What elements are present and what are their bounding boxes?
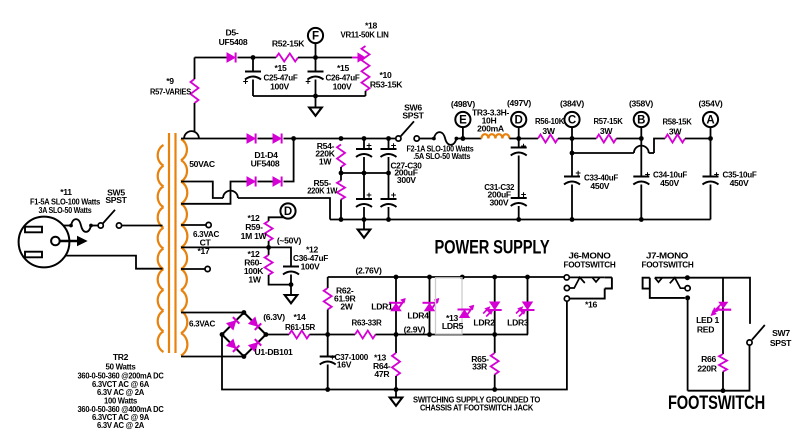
transformer TR2 core [169, 133, 176, 353]
AC plug arrow [60, 237, 87, 246]
svg-text:3A SLO-50 Watts: 3A SLO-50 Watts [39, 205, 92, 215]
svg-text:47R: 47R [374, 369, 390, 379]
junction C27 top [362, 136, 367, 141]
junction node E [461, 136, 466, 141]
svg-text:+: + [521, 141, 527, 152]
wire F stub [315, 43, 317, 57]
wire 6.3VCT bottom terminal [181, 268, 205, 270]
resistor R66 [719, 354, 727, 372]
wire rail to R64 [395, 335, 397, 354]
wire R60 bottom [269, 275, 291, 285]
wire R65 to bus [494, 375, 496, 390]
svg-text:16V: 16V [337, 360, 352, 370]
wire C36 bottom [290, 275, 292, 285]
wire C28 bottom [388, 157, 390, 173]
svg-text:200mA: 200mA [477, 124, 504, 134]
node C [564, 112, 579, 127]
node D bias [280, 203, 295, 218]
svg-text:1M 1W: 1M 1W [241, 231, 268, 241]
LED LED1 [711, 302, 731, 316]
wire TR3 to R56 [509, 138, 538, 140]
J6 sleeve [570, 277, 612, 298]
wire 6.3V rail [376, 334, 529, 336]
wire 6.3VAC top tap [181, 312, 244, 314]
wire C29 lead [363, 173, 365, 199]
junction node C [570, 136, 575, 141]
svg-text:450V: 450V [590, 181, 609, 191]
junction LDR5 top [460, 275, 465, 280]
resistor R52 [276, 54, 298, 62]
ground HV bus [358, 230, 371, 238]
svg-text:3W: 3W [669, 127, 682, 137]
wire B stub [640, 127, 642, 138]
junction bypass [570, 151, 575, 156]
svg-text:R58-15K: R58-15K [663, 117, 693, 127]
inductor TR3 [481, 134, 509, 138]
wire to C25 [252, 58, 254, 72]
SW5 contact 2 [116, 223, 121, 228]
bridge U1 diamond [222, 313, 266, 357]
svg-text:33R: 33R [472, 362, 488, 372]
wire LDR2 column [494, 277, 496, 335]
wire bus to R62 [327, 277, 329, 288]
capacitor C34 [633, 177, 649, 185]
capacitor C35 [703, 177, 719, 185]
svg-text:R57-15K: R57-15K [594, 116, 624, 126]
wire LDR4 column [429, 277, 431, 335]
svg-text:FOOTSWITCH: FOOTSWITCH [668, 393, 765, 414]
wire R59 to CT [268, 241, 270, 255]
wire SW7 to bottom rail [688, 345, 750, 391]
svg-text:D: D [515, 114, 523, 126]
wire J7 tip to SW7 [687, 278, 750, 324]
svg-text:+: + [366, 141, 372, 152]
SW7 blade [752, 325, 765, 340]
wire C28 lead [388, 139, 390, 150]
wire mid to R55 [340, 173, 342, 181]
resistor R62 [324, 288, 332, 310]
capacitor C30 [381, 199, 397, 207]
svg-text:+: + [391, 190, 397, 201]
svg-text:LDR2: LDR2 [473, 317, 495, 327]
wire D stub to R59 [269, 217, 284, 221]
svg-text:LED 1: LED 1 [696, 315, 719, 325]
junction R66 bottom [721, 388, 726, 393]
wire HV center tap [181, 182, 223, 199]
wire C35 to bus [710, 185, 712, 220]
svg-text:+: + [645, 170, 651, 181]
node A [703, 112, 718, 127]
resistor R55 [337, 181, 345, 200]
terminal 6.3VCT bottom [205, 266, 210, 271]
SW6 blade [401, 121, 414, 136]
junction F node [313, 55, 318, 60]
svg-text:+: + [243, 77, 249, 88]
svg-text:UF5408: UF5408 [251, 159, 280, 169]
SW7 contact [747, 340, 752, 345]
wire plug to F1 [63, 225, 71, 227]
svg-text:C: C [568, 114, 576, 126]
svg-text:F: F [312, 30, 319, 42]
svg-text:+: + [305, 77, 311, 88]
wire R57 to B [616, 138, 641, 140]
resistor R54 [337, 145, 345, 168]
wire D2 to rail [284, 138, 342, 140]
wire R61 to R63 [310, 334, 356, 336]
diode D4 [273, 177, 282, 187]
wire HV ground bus [330, 219, 711, 221]
wire C25 bottom [252, 80, 254, 97]
node D [511, 112, 526, 127]
junction C33 bus [570, 217, 575, 222]
AC plug neutral prong [25, 252, 42, 258]
junction LDR3 top [525, 275, 530, 280]
wire A to C35 [710, 139, 712, 177]
resistor R61 [289, 331, 310, 339]
wire SW5 to TR2 primary top [122, 225, 163, 227]
svg-text:SPST: SPST [105, 195, 127, 205]
svg-text:R57-VARIES: R57-VARIES [150, 87, 191, 97]
wire 2.76V bus [328, 276, 565, 278]
wire C27 bottom [363, 157, 365, 173]
wire R57 top [194, 58, 196, 80]
junction R55 bus [339, 217, 344, 222]
LDR LDR4 [423, 298, 440, 311]
junction R59 CT [266, 245, 271, 250]
svg-text:220K 1W: 220K 1W [307, 185, 338, 195]
LDR LDR1 [389, 298, 406, 311]
J6 sleeve terminal [564, 296, 569, 301]
svg-text:R66: R66 [701, 354, 716, 364]
junction C32 bus [516, 217, 521, 222]
junction LDR1 top [394, 275, 399, 280]
diode D2 [273, 134, 282, 144]
junction ground [313, 94, 318, 99]
svg-text:*16: *16 [585, 300, 598, 310]
svg-text:450V: 450V [660, 178, 679, 188]
wire C32 to bus [518, 206, 520, 220]
junction LDR4 top [427, 275, 432, 280]
capacitor C33 [564, 177, 580, 185]
wire E stub [462, 127, 464, 138]
wire C29 bottom [363, 207, 365, 220]
junction R54 top [339, 136, 344, 141]
svg-text:A: A [706, 114, 714, 126]
wire LDR3 column [527, 277, 529, 335]
junction node D [516, 136, 521, 141]
wire C34 to bus [640, 185, 642, 220]
svg-text:U1-DB101: U1-DB101 [255, 347, 294, 357]
svg-text:B: B [637, 114, 645, 126]
wire J7 sleeve down [687, 298, 689, 391]
junction C30 bus [386, 217, 391, 222]
junction C28 top [386, 136, 391, 141]
svg-text:FOOTSWITCH: FOOTSWITCH [642, 260, 694, 270]
wire C30 bottom [388, 207, 390, 220]
wire LDR1 column [395, 277, 397, 335]
AC plug body [19, 217, 70, 268]
J7 tip spring [670, 278, 685, 289]
svg-text:R63-33R: R63-33R [352, 318, 383, 328]
wire SW6 to F2 [419, 138, 434, 140]
svg-text:(2.9V): (2.9V) [404, 324, 426, 334]
svg-text:POWER SUPPLY: POWER SUPPLY [435, 238, 550, 259]
svg-text:100V: 100V [301, 262, 320, 272]
bridge diode 3 [227, 339, 240, 352]
junction C25 top [251, 55, 256, 60]
capacitor C32 [511, 198, 527, 206]
resistor R56 [538, 135, 558, 143]
wire D5 to node [238, 57, 277, 59]
wire C to C33 [571, 139, 573, 177]
wire C37 to ground bus [327, 365, 329, 390]
resistor R63 [355, 331, 376, 339]
junction bridge left [220, 332, 225, 337]
J6 tip terminal [564, 275, 569, 280]
junction J7 sleeve [685, 295, 690, 300]
svg-text:SPST: SPST [770, 338, 792, 348]
svg-text:*17: *17 [197, 246, 210, 256]
SW6 contact 1 [396, 136, 401, 141]
svg-text:*10: *10 [379, 70, 392, 80]
svg-text:(~50V): (~50V) [277, 236, 302, 246]
junction R65 bus [492, 387, 497, 392]
wire LED1 column [722, 278, 724, 354]
wire bus ground stem [363, 220, 365, 230]
svg-text:R53-15K: R53-15K [370, 80, 403, 90]
wire C26 bottom [315, 80, 317, 97]
junction node A [708, 136, 713, 141]
J6 tip notch [592, 277, 600, 282]
optional LDR5 box [436, 278, 463, 334]
fuse F1 [71, 219, 91, 232]
diode D5 [227, 53, 236, 63]
wire rail to R65 [494, 335, 496, 354]
svg-text:R52-15K: R52-15K [272, 39, 305, 49]
svg-text:100V: 100V [270, 82, 289, 92]
wire 6.3VAC bottom tap [181, 356, 244, 358]
junction bridge top [242, 310, 247, 315]
hop bypass over B wire [634, 146, 649, 153]
SW6 contact 2 [414, 136, 419, 141]
transformer TR2 secondary winding [181, 139, 187, 356]
wire middle cap rail [341, 172, 389, 174]
SW5 contact 1 [98, 223, 103, 228]
wire R56 to C [558, 138, 596, 140]
node B [634, 112, 649, 127]
wire R57 bottom [194, 103, 196, 133]
wire D3 to D4 [258, 181, 274, 183]
bridge diode 2 [249, 317, 262, 330]
junction C29 bus [362, 217, 367, 222]
svg-text:(6.3V): (6.3V) [263, 312, 285, 322]
wire J6 tip line [569, 276, 604, 278]
svg-text:*11: *11 [60, 187, 72, 197]
wire R62 to rail [327, 310, 329, 335]
svg-text:+: + [575, 168, 581, 179]
diode D3 [247, 177, 256, 187]
LDR LDR2 [483, 302, 502, 317]
svg-text:(354V): (354V) [699, 99, 723, 109]
svg-text:*9: *9 [166, 76, 174, 86]
capacitor C31 [511, 148, 527, 156]
svg-text:LDR1: LDR1 [371, 301, 393, 311]
svg-text:*15: *15 [337, 63, 350, 73]
wire C stub [571, 127, 573, 138]
svg-text:R61-15R: R61-15R [285, 322, 316, 332]
svg-text:SW7: SW7 [772, 328, 790, 338]
junction bridge bottom [242, 354, 247, 359]
svg-text:+: + [391, 141, 397, 152]
wire bypass right [649, 152, 654, 154]
transformer TR2 primary winding [158, 145, 164, 352]
wire R52 to VR11 wiper [298, 57, 352, 59]
svg-text:450V: 450V [730, 178, 749, 188]
wire R57 hook to tap [184, 131, 199, 138]
wire plug neutral to TR2 primary bottom [65, 256, 162, 269]
svg-text:RED: RED [697, 325, 714, 335]
junction C37 R62 [325, 332, 330, 337]
wire chassis ground stem [395, 390, 397, 398]
wire bypass left [572, 152, 634, 154]
junction LDR2 top [492, 275, 497, 280]
capacitor C36 [283, 267, 299, 275]
wire B to C34 [640, 139, 642, 177]
junction LDR4 rail [427, 332, 432, 337]
svg-text:2W: 2W [340, 301, 353, 311]
wire C33 to bus [571, 185, 573, 220]
svg-text:+: + [366, 190, 372, 201]
resistor R65 [491, 353, 499, 375]
junction LDR2 rail [492, 332, 497, 337]
svg-text:6.3VAC: 6.3VAC [189, 319, 215, 329]
AC plug ground pin [51, 237, 60, 246]
svg-text:E: E [459, 114, 467, 126]
svg-text:100V: 100V [333, 82, 352, 92]
junction R54-R55 [339, 171, 344, 176]
capacitor C37 [320, 357, 336, 365]
resistor R58 [665, 135, 685, 143]
wire R66 to bottom [722, 372, 724, 391]
wire F1 to SW5 [91, 225, 98, 227]
wire D4 to rectifier output [284, 139, 294, 182]
wire top section ground bus [253, 95, 366, 97]
junction R64 bus [394, 387, 399, 392]
svg-text:+: + [714, 170, 720, 181]
svg-text:300V: 300V [489, 198, 508, 208]
resistor R64 [392, 353, 400, 376]
wire HV bottom tap to D3 [181, 182, 247, 204]
svg-text:CHASSIS AT FOOTSWITCH JACK: CHASSIS AT FOOTSWITCH JACK [420, 403, 534, 413]
wire to C26 [315, 58, 317, 72]
wire low-voltage ground bus [222, 301, 567, 389]
svg-text:+: + [521, 190, 527, 201]
wire F2 to TR3 [456, 138, 481, 140]
wire R64 to bus [395, 376, 397, 390]
capacitor C26 [308, 72, 324, 80]
junction C34 bus [639, 217, 644, 222]
svg-text:SPST: SPST [402, 111, 424, 121]
J7 NC terminal [685, 286, 690, 291]
junction mid C28 [386, 171, 391, 176]
J6 NC terminal [564, 285, 569, 290]
SW5 blade [103, 210, 115, 224]
wire ground stem [315, 96, 317, 107]
fuse F2 [434, 132, 457, 145]
junction mid C27 [362, 171, 367, 176]
ground top section [309, 108, 322, 116]
resistor R57 3W [596, 135, 616, 143]
wire C31 to C32 [518, 156, 520, 199]
capacitor C25 [245, 72, 261, 80]
J7 sleeve box [643, 278, 685, 298]
wire jog to R58 [654, 139, 665, 154]
wire D1 to D2 [258, 138, 274, 140]
svg-text:VR11-50K LIN: VR11-50K LIN [341, 30, 389, 40]
wire top rail to D5 [195, 57, 228, 59]
wire D to C31 [518, 139, 520, 148]
bridge diode 4 [249, 339, 262, 352]
svg-text:(384V): (384V) [560, 99, 584, 109]
wire bias ground stem [290, 285, 292, 295]
junction C36 ground [289, 282, 294, 287]
wire R53 bottom [365, 91, 367, 96]
wire rail to SW6 [341, 138, 398, 140]
svg-text:LDR3: LDR3 [507, 317, 529, 327]
wire C27 lead [363, 139, 365, 150]
wire R58 to A [685, 138, 711, 140]
J7 tip notch [655, 278, 662, 283]
resistor R57-VARIES [191, 79, 199, 103]
svg-text:R56-10K: R56-10K [535, 116, 565, 126]
junction LDR1 rail [394, 332, 399, 337]
potentiometer VR11 / resistor R53 [362, 46, 370, 91]
AC plug hot prong [25, 227, 42, 233]
svg-text:D: D [284, 206, 292, 218]
node F [308, 28, 323, 43]
svg-text:(358V): (358V) [629, 99, 653, 109]
wire bridge to R61 [266, 334, 289, 336]
wire D stub [518, 127, 520, 138]
junction bridge right [264, 332, 269, 337]
VR11 wiper arrow [352, 53, 365, 61]
ground chassis [390, 398, 403, 406]
capacitor C28 [381, 149, 397, 157]
svg-text:LDR5: LDR5 [442, 321, 464, 331]
diode D1 [247, 134, 256, 144]
wire CT to ground bus [238, 198, 330, 220]
bridge diode 1 [227, 317, 240, 330]
capacitor C27 [356, 149, 372, 157]
svg-text:300V: 300V [397, 175, 416, 185]
wire C30 lead [388, 173, 390, 199]
svg-text:*14: *14 [293, 312, 306, 322]
ground bias [285, 295, 298, 303]
svg-text:*15: *15 [274, 63, 287, 73]
svg-text:.5A SLO-50 Watts: .5A SLO-50 Watts [413, 151, 470, 161]
junction J7 tip [685, 275, 690, 280]
svg-text:(2.76V): (2.76V) [355, 265, 382, 275]
svg-text:LDR4: LDR4 [407, 311, 429, 321]
wire 6.3VCT center tap [181, 247, 291, 266]
svg-text:50VAC: 50VAC [189, 159, 215, 169]
junction C37 bus [325, 387, 330, 392]
svg-text:FOOTSWITCH: FOOTSWITCH [564, 260, 616, 270]
wire A stub [710, 127, 712, 138]
svg-text:1W: 1W [248, 274, 261, 284]
terminal 6.3VCT top [206, 222, 211, 227]
node E [455, 112, 470, 127]
